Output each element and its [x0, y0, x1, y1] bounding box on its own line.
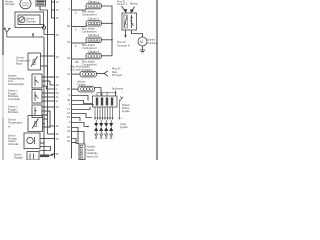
fuel pump motor M1: [138, 37, 147, 46]
spark plug 2: [99, 123, 103, 131]
fuel pump ground: [140, 46, 145, 53]
junction dot staircase: [87, 126, 89, 128]
velas de ignicao label: [118, 118, 128, 129]
coil element 3: [106, 98, 108, 106]
sensor pressao box (inner): [18, 15, 40, 25]
valvula recirculacao (EGR) coil: [80, 71, 97, 77]
svg-text:Desaceleração: Desaceleração: [8, 83, 25, 86]
sensor 2 posicao borboleta label: [8, 106, 19, 115]
sensor borboleta box 3: [32, 105, 42, 118]
valvula canister coil: [78, 86, 95, 92]
injector 2 caption: [82, 27, 97, 34]
svg-text:Principal: Principal: [112, 74, 122, 77]
svg-text:Conector K: Conector K: [117, 44, 130, 47]
secondary wires down from coil pack: [95, 107, 113, 118]
sensor temperatura agua label: [16, 57, 31, 66]
wire ECU to injector 1: [72, 8, 87, 15]
svg-text:12 V: 12 V: [118, 118, 123, 120]
sensor rotacao label: [14, 154, 24, 160]
relay switch element: [130, 15, 133, 28]
sensor temperatura ar label: [8, 119, 23, 129]
svg-text:Combust.: Combust.: [148, 42, 159, 45]
modulo label right of coil: [122, 104, 131, 113]
spark plug 1 (gap symbol): [94, 123, 98, 131]
wire ECU to EGR: [72, 73, 81, 75]
injector cilindro 3: [86, 37, 102, 43]
injector cilindro 3 label: [88, 33, 100, 37]
bottom small label right: [0, 0, 1, 1]
page right border: [156, 0, 158, 160]
relay feed arrows: [122, 6, 135, 12]
ground tips under spark plugs: [95, 131, 113, 139]
injector cilindro 4: [86, 53, 102, 59]
svg-text:Combustível: Combustível: [82, 12, 97, 16]
svg-text:Ignição: Ignição: [120, 126, 128, 129]
sensor rotacao box: [27, 152, 39, 161]
injector 1 caption: [82, 9, 97, 16]
sensor pressao coletor admissao label: [8, 135, 19, 146]
wires sensor borboleta 3 (step down to pins): [42, 107, 54, 126]
wire relay to fuel pump: [132, 30, 143, 37]
coil top stubs: [97, 93, 114, 97]
injector 4 caption: [82, 59, 97, 66]
sensor rotacao dark wire bundle and arrow to ECU: [40, 150, 54, 157]
sensor borboleta box 2: [32, 90, 42, 104]
wire canister right: [95, 88, 102, 96]
sensor temperatura ar box: [28, 116, 43, 132]
svg-text:Alarme DC: Alarme DC: [87, 155, 99, 158]
bomba combustivel label: [148, 38, 159, 44]
spark plug 3: [104, 123, 108, 131]
label top-left sensor de fase: [5, 0, 15, 6]
gauge G1 (painel) circle: [20, 0, 31, 9]
coil element 4: [111, 98, 113, 106]
ECU right pin numbers: [67, 7, 70, 143]
svg-text:Rotação: Rotação: [14, 156, 24, 159]
coil element 2: [101, 98, 103, 106]
ECU left edge bus: [54, 0, 56, 159]
svg-text:Água: Água: [16, 63, 22, 66]
sensor temperatura agua box: [28, 53, 41, 70]
small connector triangles row: [94, 118, 114, 121]
wires ECU to bottom connector: [72, 128, 85, 145]
sensor pressao coletor box: [24, 133, 40, 149]
injector cilindro 2 label: [88, 17, 100, 21]
injector cilindro 1 (bico injetor): [86, 3, 102, 9]
wire right of coil pack: [120, 97, 124, 120]
ignition coil pack box: [93, 96, 118, 107]
long wire y37 to vertical x44: [7, 33, 44, 38]
wire injector 4 to supply rail: [102, 55, 113, 57]
svg-text:de Fase: de Fase: [5, 2, 15, 6]
wire loop above sensor rotacao: [39, 147, 51, 151]
sensor pressao box (outer): [15, 12, 44, 28]
spark plug 4: [109, 123, 113, 131]
wire injector 2 to supply rail: [102, 23, 113, 40]
wires temp agua to ECU: [41, 56, 55, 77]
svg-text:Cilindro 2: Cilindro 2: [88, 17, 100, 21]
injector 3 caption: [82, 43, 97, 50]
ECU right edge bus: [71, 0, 73, 159]
staircase wires ECU to ignition area: [72, 96, 95, 127]
wire injector 3 to supply rail: [102, 39, 113, 56]
wire ECU to injector 3: [72, 42, 87, 48]
svg-text:Ignição: Ignição: [122, 110, 130, 113]
wire ECU to injector 2: [72, 25, 87, 31]
svg-text:Aceleração: Aceleração: [8, 98, 21, 101]
svg-text:Ar: Ar: [8, 126, 11, 129]
shielded pair symbol (antenna) left: [4, 28, 11, 37]
injector cilindro 2: [86, 21, 102, 27]
relay fuse element: [124, 15, 127, 28]
svg-text:Pressão: Pressão: [27, 20, 37, 23]
wires sensor borboleta 2: [42, 93, 54, 101]
plug stems between triangles rows: [96, 120, 111, 123]
svg-text:Temperatura: Temperatura: [8, 122, 23, 125]
svg-text:Cilindro 3: Cilindro 3: [88, 33, 100, 37]
wire from J1 down and right: [40, 6, 48, 10]
bottom connector box: [79, 144, 85, 160]
coil element 1: [96, 98, 98, 106]
relay labels top right: [117, 1, 138, 7]
svg-text:Mar: Mar: [75, 61, 79, 64]
bottom connector labels: [87, 146, 99, 159]
sensor posicao borboleta (desaceleracao) label: [8, 75, 25, 86]
svg-text:Bateria: Bateria: [130, 3, 138, 6]
wires sensor borboleta 1: [42, 77, 54, 89]
wire ECU to canister: [72, 88, 79, 90]
relay box K1: [122, 13, 137, 30]
svg-text:M: M: [140, 40, 143, 44]
ECU left pins top vertical feed: [52, 0, 55, 18]
tacometro label and arrow: [112, 88, 124, 97]
wires temp ar to ECU: [43, 118, 55, 134]
sensor posicao borboleta box 1: [32, 74, 42, 88]
svg-text:Borboleta: Borboleta: [8, 111, 19, 114]
wire sensor pressao to ECU with inline connector circle: [40, 25, 54, 35]
wire vertical run x47.5 down to y134: [47, 10, 49, 134]
vertical run x44 y37 to y150: [43, 37, 45, 150]
page left border: [2, 0, 4, 160]
wire EGR to chevron (pino 87): [97, 71, 109, 76]
svg-text:Admissão: Admissão: [8, 143, 19, 146]
svg-text:Conect. K: Conect. K: [117, 3, 128, 6]
valvula recirculacao gases label: [70, 65, 93, 71]
wire ECU to injector 4: [72, 58, 87, 64]
label pino 87 rele principal: [112, 67, 122, 77]
connector block J1 (dark box top): [36, 0, 46, 6]
valvula canister label: [77, 80, 86, 86]
injector cilindro 4 label: [88, 49, 100, 53]
wires pressao coletor to ECU: [40, 139, 54, 144]
sensor 1 posicao borboleta aceleracao label: [8, 90, 21, 101]
label pino 30 conector K bottom: [117, 41, 130, 47]
injector cilindro 1 label: [88, 0, 100, 3]
ECU left pin numbers: [56, 0, 59, 156]
relay output arrow down: [124, 30, 126, 38]
wire injector 1 to supply rail: [102, 6, 113, 23]
svg-text:Tacômetro: Tacômetro: [112, 88, 124, 91]
